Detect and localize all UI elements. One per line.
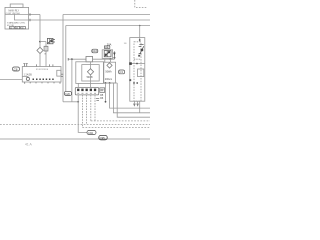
wire bus B3 y14.5 right	[63, 14, 150, 16]
node J2	[71, 58, 73, 60]
K2 dark marks	[105, 51, 110, 56]
switch S1 contact	[139, 44, 144, 53]
connector C20 label	[64, 91, 71, 96]
svg-text:200um: 200um	[105, 78, 112, 81]
A3 pin square 2	[129, 79, 131, 81]
node J6	[139, 39, 141, 41]
A3 exit stub 2	[137, 101, 139, 105]
relay K3 small box	[100, 88, 105, 93]
wire vertical x46	[45, 42, 47, 67]
connector strip X1	[75, 87, 98, 95]
node J11	[110, 58, 112, 60]
svg-text:50Wh: 50Wh	[87, 76, 94, 79]
P1 diamond	[87, 69, 93, 75]
node J9	[136, 82, 138, 84]
relay K1 icon	[47, 38, 55, 43]
fuse F5 label 20A	[107, 42, 112, 46]
valve V1 box	[103, 62, 115, 83]
A2 right sub box	[57, 70, 61, 76]
wire y101.8	[63, 101, 78, 103]
wire vertical x72	[71, 59, 73, 102]
wire bus B1 y14.5 left	[29, 14, 40, 16]
S1 lower mark	[138, 55, 140, 57]
V1 label2	[105, 78, 112, 81]
svg-text:C20: C20	[65, 92, 70, 96]
wire branch y41.6	[40, 41, 46, 43]
dashed wire y120.9	[91, 120, 150, 122]
A2 inner wire	[22, 75, 28, 77]
diode D1 diamond	[37, 47, 43, 53]
V1 diamond	[107, 63, 112, 68]
wire stub x105.5	[105, 83, 107, 102]
U1 label text	[6, 9, 21, 15]
diode D2	[113, 51, 116, 59]
svg-text:F1 F2 F3 F4: F1 F2 F3 F4	[36, 69, 49, 71]
A3 dashed divider	[134, 58, 141, 60]
U1 lower text block	[7, 22, 26, 27]
connector C10 label	[99, 135, 107, 140]
A2 pin squares	[33, 79, 54, 81]
X1 lower marks	[77, 92, 96, 94]
wire bus B4 y25.5	[66, 25, 150, 27]
connector C3 label	[119, 70, 125, 74]
A3 pin square	[129, 62, 132, 65]
K3 text	[100, 94, 104, 100]
svg-text:C3: C3	[119, 70, 123, 74]
pin tick T3	[67, 58, 69, 61]
svg-text:C94: C94	[88, 131, 93, 135]
wire y83	[103, 82, 117, 84]
node J12	[139, 25, 141, 27]
A3 dashed inner box	[134, 42, 141, 101]
wire vertical x40	[39, 15, 41, 48]
dashed wire y124.4	[0, 123, 150, 125]
coil L1 box	[138, 69, 144, 77]
V1 label1	[105, 71, 112, 74]
relay K2 box	[104, 51, 111, 57]
wire drop x117.2	[117, 83, 150, 117]
resistor R1 box	[44, 46, 48, 51]
motor M1 circle	[26, 77, 29, 80]
P1 inner box	[82, 65, 99, 81]
X1 pin squares	[77, 89, 96, 92]
dashed box top right	[135, 0, 147, 8]
fuse F5 box	[104, 46, 109, 49]
A2 value text	[24, 74, 33, 77]
A3 divider wire	[130, 63, 145, 65]
wire drop x113.4	[113, 83, 150, 113]
node J3	[105, 82, 107, 84]
U1 top tab	[10, 4, 23, 7]
svg-text:C95: C95	[100, 136, 106, 140]
U1 divider	[5, 13, 29, 15]
U1 inner wire	[14, 14, 28, 20]
wire drop x82.4	[81, 95, 83, 128]
node J4	[109, 82, 111, 84]
wire vertical x63	[62, 15, 64, 102]
connector C9 label	[87, 130, 96, 135]
svg-text:50Wh: 50Wh	[105, 71, 112, 74]
wire stub x78.3	[77, 83, 79, 87]
pump P1 outer box	[76, 62, 104, 84]
A2 top pin stubs	[23, 64, 53, 67]
svg-text:41 A: 41 A	[25, 143, 33, 147]
relay K2 outer box	[102, 50, 112, 59]
F5 inner mark	[105, 46, 109, 49]
wire drop x109.6	[110, 83, 150, 108]
K3 marks	[96, 89, 104, 100]
connector C16 label	[92, 49, 98, 53]
A2 header text	[36, 69, 49, 71]
wire x90.5 lower	[90, 75, 92, 88]
A2 right pin stubs	[61, 74, 63, 76]
fuse F6 box on wire	[86, 57, 93, 62]
relay box A2	[22, 67, 61, 83]
wire left feed y79.5	[0, 79, 22, 81]
wire below D1	[39, 54, 41, 67]
wire x90.5 upper	[90, 62, 92, 69]
dashed wire y127.4	[82, 126, 150, 128]
pin tick T2	[29, 19, 31, 21]
A3 exit stub 1	[134, 101, 136, 105]
node J8	[133, 82, 135, 84]
control unit U1 box	[5, 7, 29, 29]
K2 down wires	[105, 59, 111, 62]
node J5	[105, 101, 107, 103]
wire drop x95	[94, 95, 96, 121]
A3 exit wire x139.7	[139, 101, 141, 113]
U1 pin number row	[10, 26, 26, 28]
A3 side label	[124, 43, 127, 45]
wire vertical x66	[65, 26, 67, 92]
pin tick T1	[29, 13, 31, 15]
node J7	[136, 63, 138, 65]
node J1	[39, 41, 41, 43]
S1 dark mark	[141, 49, 144, 51]
svg-text:C16: C16	[92, 49, 97, 53]
wire drop x90.8	[90, 95, 92, 121]
K1 dark mark	[51, 40, 53, 42]
bottom frame line	[0, 138, 150, 140]
wire bus B2 y20	[29, 19, 150, 21]
connector C8 label	[13, 67, 20, 71]
A2 bottom pin ticks	[25, 82, 60, 84]
wire drop x86.6	[86, 95, 88, 125]
page label 41A	[25, 143, 33, 147]
svg-text:C8: C8	[14, 67, 18, 71]
wire y59.2	[68, 58, 114, 60]
right unit A3 box	[130, 38, 145, 102]
node J10	[77, 101, 79, 103]
wire drop x78.2	[78, 95, 87, 132]
A3 feed stub	[139, 26, 141, 43]
P1 value label	[87, 76, 94, 79]
R1 value label	[45, 54, 47, 56]
